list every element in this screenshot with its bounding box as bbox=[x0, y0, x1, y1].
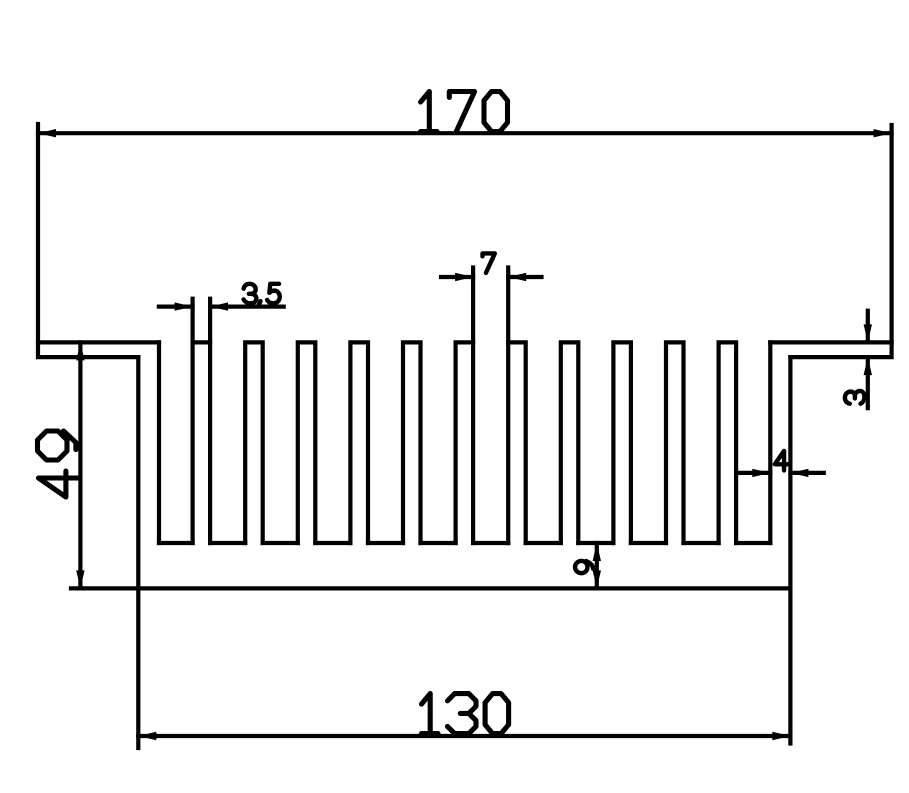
dimension 7 extension lines bbox=[473, 268, 508, 343]
arrowhead 3,5 right bbox=[210, 302, 228, 310]
heatsink right wall bbox=[770, 342, 790, 588]
fin 4 bbox=[350, 342, 368, 543]
arrowhead 49 top bbox=[76, 342, 84, 360]
text 4 bbox=[775, 451, 788, 471]
arrowhead 4 left bbox=[752, 469, 770, 477]
text 7 bbox=[483, 253, 495, 273]
arrowhead 130 left bbox=[138, 732, 156, 740]
fin 10 bbox=[666, 342, 684, 543]
heatsink left flange bbox=[38, 342, 159, 357]
dimension 3,5 extension lines bbox=[193, 299, 211, 343]
text 49 rotated bbox=[38, 431, 79, 497]
fin 5 bbox=[403, 342, 421, 543]
heatsink base bottom bbox=[138, 586, 790, 590]
fin 8 bbox=[561, 342, 579, 543]
arrowhead 170 right bbox=[874, 129, 892, 137]
dimension 130 line bbox=[138, 734, 790, 738]
heatsink base top surface segments bbox=[159, 541, 770, 545]
arrowhead 9 top bbox=[593, 543, 601, 561]
arrowhead 3 lower bbox=[864, 357, 872, 375]
dimension 3 lines bbox=[866, 311, 870, 409]
text 9 rotated bbox=[575, 561, 593, 573]
fin 2 bbox=[245, 342, 263, 543]
fin 6 bbox=[456, 342, 474, 543]
arrowhead 4 right bbox=[790, 469, 808, 477]
dimension 3,5 line bbox=[159, 305, 284, 309]
fin 11 bbox=[719, 342, 737, 543]
arrowhead 49 bottom bbox=[76, 570, 84, 588]
fin 1 bbox=[193, 342, 211, 543]
arrowhead 170 left bbox=[38, 129, 56, 137]
arrowhead 9 bottom bbox=[593, 570, 601, 588]
fin 7 bbox=[508, 342, 526, 543]
text 170 bbox=[421, 92, 508, 132]
heatsink right flange bbox=[770, 342, 891, 357]
heatsink left wall bbox=[138, 342, 159, 588]
arrowhead 7 left bbox=[455, 273, 473, 281]
dimension 170 line bbox=[38, 131, 892, 135]
arrowhead 130 right bbox=[772, 732, 790, 740]
dimension 9 line bbox=[595, 543, 599, 588]
text 130 bbox=[422, 694, 509, 734]
arrowhead 3 upper bbox=[864, 324, 872, 342]
dimension 49 line and extension bbox=[71, 342, 138, 588]
text 3,5 bbox=[244, 284, 280, 306]
dimension 170 extension lines bbox=[38, 124, 892, 342]
text 3 rotated bbox=[845, 391, 865, 404]
dimension 7 line bbox=[441, 275, 542, 279]
dimension 130 extension lines bbox=[138, 588, 790, 748]
arrowhead 7 right bbox=[508, 273, 526, 281]
arrowhead 3,5 left bbox=[175, 302, 193, 310]
dimension 4 line bbox=[738, 471, 824, 475]
fin 3 bbox=[298, 342, 316, 543]
fin 9 bbox=[613, 342, 631, 543]
